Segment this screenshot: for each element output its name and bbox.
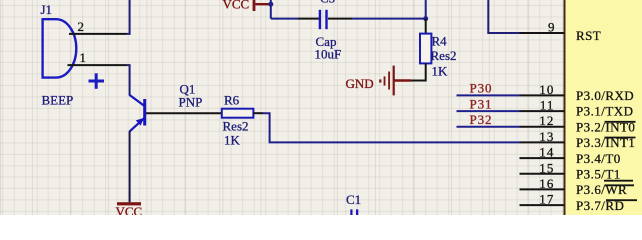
- wire P31 / pin 11: [457, 110, 565, 112]
- svg-text:10uF: 10uF: [315, 47, 342, 62]
- base bar: [143, 99, 146, 126]
- svg-text:GND: GND: [346, 76, 374, 91]
- buzzer J1 polarity plus: [89, 73, 105, 89]
- svg-text:2: 2: [78, 19, 85, 34]
- svg-text:P3.4/T0: P3.4/T0: [576, 151, 621, 166]
- svg-text:17: 17: [539, 192, 554, 207]
- svg-text:Res2: Res2: [223, 119, 249, 134]
- overline INT1: [605, 137, 636, 139]
- svg-text:13: 13: [539, 129, 554, 144]
- wire P32 / pin 12: [457, 126, 565, 128]
- svg-text:P3.6/WR: P3.6/WR: [576, 182, 627, 197]
- wire VCC vertical from top edge: [270, 0, 272, 19]
- svg-text:C1: C1: [346, 192, 361, 207]
- overline INT0: [605, 121, 636, 123]
- emitter leg: [130, 118, 145, 131]
- overline WR: [605, 184, 635, 186]
- svg-text:1K: 1K: [224, 133, 241, 148]
- IC U1 body (yellow box, partially visible): [565, 0, 642, 220]
- svg-text:11: 11: [540, 98, 555, 113]
- pin 14 stub: [520, 157, 565, 159]
- junction node at R4 top: [423, 16, 428, 21]
- collector leg: [130, 95, 145, 106]
- wire R4 bottom to GND: [411, 63, 426, 80]
- svg-text:P31: P31: [470, 96, 493, 111]
- pin 9 RST wire from top edge: [488, 0, 564, 33]
- capacitor C5: [319, 10, 328, 29]
- svg-text:PNP: PNP: [179, 95, 203, 110]
- svg-text:16: 16: [539, 176, 554, 191]
- resistor R6: [222, 109, 254, 118]
- junction node at VCC stub: [268, 2, 273, 7]
- wire pin1 down to Q1 collector: [127, 65, 130, 95]
- pin 17 stub: [520, 204, 565, 206]
- wire Q1 base to R6: [146, 112, 222, 114]
- pin 2 of J1: [69, 19, 127, 34]
- svg-text:RST: RST: [576, 28, 601, 43]
- svg-text:J1: J1: [41, 2, 53, 17]
- svg-text:14: 14: [539, 145, 554, 160]
- svg-text:P3.1/TXD: P3.1/TXD: [576, 104, 633, 119]
- svg-text:VCC: VCC: [116, 204, 143, 215]
- resistor R4: [420, 34, 431, 64]
- svg-text:10: 10: [539, 82, 554, 97]
- svg-text:9: 9: [548, 20, 555, 35]
- power ground GND: [346, 66, 412, 96]
- power port VCC (bottom): [116, 202, 143, 219]
- svg-text:1K: 1K: [432, 64, 449, 79]
- overline RD: [606, 199, 637, 201]
- svg-text:C5: C5: [320, 0, 335, 6]
- buzzer J1 body: [43, 19, 77, 77]
- svg-text:P3.0/RXD: P3.0/RXD: [576, 88, 634, 103]
- pin 1 of J1: [68, 50, 127, 65]
- wire from top edge to R4 node: [425, 0, 427, 19]
- capacitor C1 (cut off at bottom): [350, 209, 358, 215]
- wire C5 right to R4 node: [328, 18, 426, 20]
- svg-text:15: 15: [539, 160, 554, 175]
- svg-text:P3.5/T1: P3.5/T1: [576, 167, 621, 182]
- svg-text:P32: P32: [470, 112, 493, 127]
- wire P30 / pin 10: [457, 94, 565, 96]
- svg-text:1: 1: [80, 50, 87, 65]
- svg-text:VCC: VCC: [223, 0, 250, 12]
- pin 15 stub: [520, 173, 565, 175]
- wire pin2 to top edge: [127, 0, 130, 34]
- svg-text:R6: R6: [224, 93, 240, 108]
- svg-text:P30: P30: [470, 81, 493, 96]
- svg-text:BEEP: BEEP: [42, 93, 74, 108]
- wire Q1 emitter to VCC: [129, 131, 131, 202]
- svg-text:12: 12: [539, 113, 554, 128]
- power port VCC (top): [223, 0, 270, 12]
- svg-text:Res2: Res2: [431, 48, 457, 63]
- transistor Q1: [130, 95, 145, 131]
- pin 13 stub: [520, 141, 565, 143]
- wire R6 to pin13: [253, 113, 519, 142]
- svg-text:R4: R4: [432, 34, 448, 49]
- emitter arrow: [136, 118, 144, 126]
- wire VCC to C5 left: [271, 18, 320, 20]
- R4 top lead: [425, 19, 427, 34]
- underline T1: [604, 180, 633, 182]
- pin 16 stub: [520, 188, 565, 190]
